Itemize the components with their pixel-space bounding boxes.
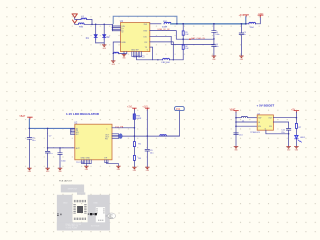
svg-text:600R: 600R xyxy=(136,118,141,120)
resistor R7 xyxy=(295,123,302,135)
junction bus loop xyxy=(176,23,178,25)
ground under diodes xyxy=(102,45,107,50)
ground under C8 xyxy=(58,168,63,173)
wire diode gnd bar xyxy=(96,43,105,45)
junction bottom rail right xyxy=(173,59,174,60)
figure main left block xyxy=(57,195,73,231)
svg-text:FB4: FB4 xyxy=(250,27,255,29)
pin wire U1 right top xyxy=(150,23,161,25)
svg-text:FB3: FB3 xyxy=(79,26,84,28)
ground boost left xyxy=(234,147,239,152)
wire boost fb xyxy=(266,130,289,134)
ground under C9 xyxy=(145,167,150,172)
wire fuse to rail corner xyxy=(87,19,92,24)
svg-text:+3V3: +3V3 xyxy=(239,15,245,17)
TVS diode D2 xyxy=(103,24,111,43)
wire flag A to bead xyxy=(133,110,135,114)
figure cutout pads xyxy=(96,208,104,221)
svg-text:BOT SIDE: BOT SIDE xyxy=(91,226,100,228)
svg-text:D1: D1 xyxy=(86,38,90,40)
wire 5V stem xyxy=(295,112,297,123)
wire flag B stem xyxy=(146,110,148,136)
figure dark pads xyxy=(90,213,97,215)
junction 5V xyxy=(296,117,298,119)
inductor L1 xyxy=(241,116,247,122)
svg-text:1V1_FB: 1V1_FB xyxy=(115,126,123,128)
ground under U2 a xyxy=(85,166,90,171)
IC U3 boost xyxy=(257,113,273,130)
ferrite bead FB6 xyxy=(160,135,167,137)
wire boost out2 xyxy=(273,122,288,128)
svg-text:R6: R6 xyxy=(138,158,142,160)
junction FB xyxy=(134,127,136,129)
capacitor C3 xyxy=(212,24,220,39)
svg-text:BYP: BYP xyxy=(76,148,81,150)
power flag VBUS xyxy=(72,14,77,18)
svg-text:10u: 10u xyxy=(150,152,154,154)
svg-text:GND: GND xyxy=(93,202,98,204)
svg-text:100n: 100n xyxy=(215,34,219,36)
svg-text:1.1V LDO REGULATOR: 1.1V LDO REGULATOR xyxy=(66,112,100,116)
wire boost input stem xyxy=(235,112,237,146)
VDD loop wire xyxy=(113,16,177,24)
svg-text:100n: 100n xyxy=(61,160,66,162)
capacitor C5 xyxy=(239,24,246,56)
junction bus R chain xyxy=(182,23,184,25)
pin block U1 bottom xyxy=(132,52,142,57)
wire rail2 xyxy=(48,147,75,149)
IC U1 main MCU xyxy=(120,20,150,52)
pin stub U1 right 4 xyxy=(150,47,153,60)
svg-text:10u: 10u xyxy=(32,140,36,142)
rail 1V1 out xyxy=(122,135,179,137)
junction bus C chain xyxy=(213,23,215,25)
wire to bead FB4 xyxy=(246,23,249,25)
svg-text:R5: R5 xyxy=(138,144,142,146)
wire bead down to FB node xyxy=(133,120,135,137)
svg-text:PCB LAYOUT: PCB LAYOUT xyxy=(59,179,73,182)
pin block U1 left xyxy=(112,25,121,31)
wire fuse input xyxy=(75,18,81,20)
ferrite bead FB1 xyxy=(162,21,171,29)
junction C4 mid xyxy=(213,44,215,46)
wire L1 to IC xyxy=(248,117,258,119)
junction boost in a xyxy=(235,117,237,119)
capacitor C8 xyxy=(58,147,67,168)
ground under C7 xyxy=(46,168,51,173)
capacitor C7 xyxy=(45,148,53,168)
power flag 1V1 B xyxy=(142,107,149,110)
LED LED1 xyxy=(295,135,306,146)
net label NRST red xyxy=(189,37,205,40)
resistor R6 xyxy=(133,155,141,166)
svg-text:FB2 600: FB2 600 xyxy=(162,62,171,64)
wire bottom rail xyxy=(137,56,163,59)
power flag 1V1 A xyxy=(127,107,136,110)
wire to ground left xyxy=(112,53,114,60)
power flag 3V3 xyxy=(239,15,249,24)
wire bead to flag VDD xyxy=(255,17,260,24)
svg-text:+ 5V BOOST: + 5V BOOST xyxy=(257,104,275,108)
junction input rail xyxy=(91,24,93,26)
ground under bead xyxy=(111,61,116,66)
wire boost SW xyxy=(236,117,241,119)
junction boost in b xyxy=(235,121,237,123)
junction bottom rail left xyxy=(157,59,158,60)
net port 1V1 xyxy=(175,107,185,111)
figure left edge marks xyxy=(57,213,62,216)
power flag VIN arrow xyxy=(73,20,77,23)
ground under LED xyxy=(295,147,300,152)
figure bottom band xyxy=(57,222,110,230)
pin wire U1 mid xyxy=(150,36,214,44)
svg-text:10u: 10u xyxy=(215,46,218,48)
junction rail2 xyxy=(47,147,49,149)
ground under divider xyxy=(133,167,138,172)
svg-text:D2: D2 xyxy=(107,37,111,39)
wire input rail xyxy=(85,24,113,31)
capacitor C6 xyxy=(27,128,36,167)
pin block U2 bottom b xyxy=(105,160,119,166)
ferrite bead FB4 xyxy=(249,22,256,29)
figure center footprint xyxy=(57,200,97,220)
ferrite bead FB3 xyxy=(78,23,84,29)
ground under IC bottom-left xyxy=(122,52,127,60)
junction boost in c xyxy=(235,125,237,127)
wire boost out xyxy=(273,117,296,119)
svg-text:KEEPOUT: KEEPOUT xyxy=(68,189,78,191)
wire bottom rail right xyxy=(170,49,184,60)
figure right cutout xyxy=(96,207,105,222)
svg-text:GND: GND xyxy=(63,202,68,204)
wire flag2 to bead xyxy=(75,23,79,24)
pin block U2 left xyxy=(70,128,75,134)
capacitor C9 xyxy=(145,136,154,167)
figure callout xyxy=(106,213,116,220)
svg-text:TPS61023: TPS61023 xyxy=(250,132,260,134)
resistor R4 xyxy=(48,128,53,148)
svg-text:C7: C7 xyxy=(49,135,53,137)
svg-text:1u: 1u xyxy=(244,34,246,36)
net wire NRST xyxy=(183,38,214,40)
power flag VBAT xyxy=(19,115,32,119)
junction fb node xyxy=(288,133,290,135)
junction cout xyxy=(147,135,149,137)
figure main right block xyxy=(88,195,110,231)
power flag VBAT boost xyxy=(230,108,239,112)
junction NRST xyxy=(182,38,184,40)
pin wire U1 low xyxy=(150,42,174,60)
svg-text:VBAT: VBAT xyxy=(19,115,25,118)
fuse F1 xyxy=(81,16,87,19)
svg-text:R7: R7 xyxy=(299,127,303,129)
resistor R1 xyxy=(182,24,189,39)
capacitor C4 xyxy=(212,39,219,56)
junction bus C5 xyxy=(241,23,243,25)
pin wire U2 FB xyxy=(112,127,134,129)
wire VBAT stem xyxy=(29,119,74,128)
ground under C6 xyxy=(28,168,33,173)
svg-text:1u: 1u xyxy=(50,153,53,155)
ferrite bead FB5 xyxy=(133,114,142,120)
power flag VDD33 xyxy=(258,14,264,17)
resistor R2 xyxy=(182,39,189,50)
svg-text:USB_5V_IN: USB_5V_IN xyxy=(158,29,170,31)
svg-text:LED1: LED1 xyxy=(300,137,306,139)
svg-text:10K: 10K xyxy=(185,34,189,36)
junction bead left xyxy=(113,53,114,54)
capacitor C11 xyxy=(281,129,291,147)
ground under U2 b xyxy=(117,166,122,171)
pin block U2 bottom a xyxy=(82,160,92,166)
junction D1 xyxy=(95,24,97,26)
svg-text:BAT_CHG_IN: BAT_CHG_IN xyxy=(191,37,205,40)
figure top block xyxy=(61,185,84,193)
bus 3V3 xyxy=(171,23,246,25)
junction bus end xyxy=(245,23,247,25)
bead FB2 bottom xyxy=(162,58,171,64)
svg-text:SW: SW xyxy=(258,118,261,120)
bead under IC left xyxy=(114,52,127,54)
svg-text:C10: C10 xyxy=(239,134,244,136)
svg-text:GND GND: GND GND xyxy=(81,158,91,160)
junction rail1 a xyxy=(29,128,31,130)
pin wire U1 EN xyxy=(150,31,183,40)
junction divider xyxy=(134,135,136,137)
junction C chain xyxy=(213,38,215,40)
TVS diode D1 xyxy=(86,24,97,43)
ground under C4 xyxy=(212,56,217,61)
junction rail1 b xyxy=(47,128,49,130)
wire boost vin xyxy=(236,121,257,123)
junction D2 xyxy=(103,24,105,26)
wire boost en xyxy=(236,125,257,127)
figure top tab xyxy=(77,192,85,194)
capacitor C10 xyxy=(234,133,244,136)
power flag 5V xyxy=(291,109,299,112)
svg-text:1V1: 1V1 xyxy=(176,108,181,111)
resistor R5 xyxy=(133,136,141,155)
svg-text:GND: GND xyxy=(121,42,126,44)
ground under C5 xyxy=(240,56,245,61)
ground under C11 xyxy=(287,147,292,152)
pin stub U1 left GND xyxy=(113,42,120,53)
IC U2 LDO xyxy=(74,123,112,160)
wire to net port xyxy=(166,111,179,137)
svg-text:10K: 10K xyxy=(185,48,189,50)
pin block U2 right xyxy=(112,133,123,138)
